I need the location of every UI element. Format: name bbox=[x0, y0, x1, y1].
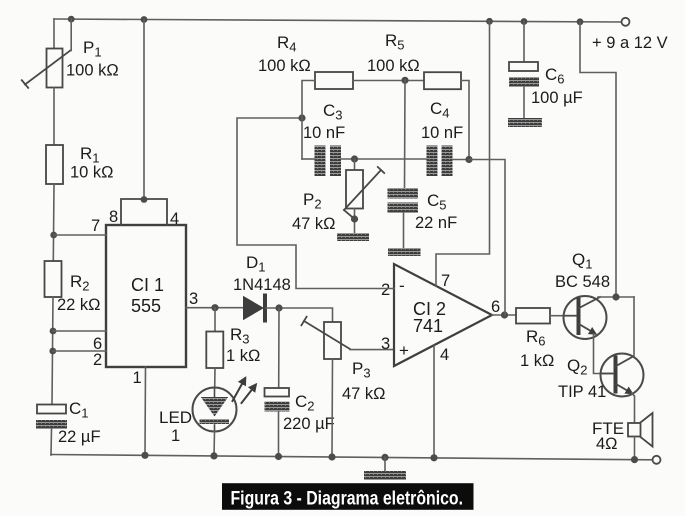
wire Q1 emitter to Q2 base bbox=[594, 334, 613, 374]
wire R1 to R2 bbox=[52, 184, 55, 261]
wire 555 pins 8-4 to rail bbox=[143, 20, 145, 200]
svg-text:1 kΩ: 1 kΩ bbox=[520, 352, 554, 370]
junction pin 6 node bbox=[501, 311, 508, 318]
svg-text:100 kΩ: 100 kΩ bbox=[367, 57, 420, 75]
wire C6 to ground bbox=[523, 87, 525, 118]
svg-text:100 µF: 100 µF bbox=[531, 89, 583, 107]
trimpot P3 bbox=[301, 317, 350, 359]
junction node R4-R5-C5 bbox=[401, 77, 408, 84]
svg-text:D1: D1 bbox=[246, 253, 266, 275]
svg-text:22 µF: 22 µF bbox=[58, 428, 101, 446]
svg-text:TIP 41: TIP 41 bbox=[558, 383, 606, 401]
wire pin 6 bbox=[53, 330, 106, 332]
wire Q2 emitter to speaker bbox=[632, 393, 635, 423]
wire to Q2 collector bbox=[633, 297, 635, 356]
wire pin 7 bbox=[54, 234, 106, 236]
svg-text:1: 1 bbox=[171, 427, 180, 445]
wire pin 6 output bbox=[492, 314, 516, 316]
ground symbol main bbox=[364, 471, 406, 480]
wire R4 left lead bbox=[302, 81, 315, 160]
junction C4-R5-feedback bbox=[465, 156, 472, 163]
svg-text:Figura 3 - Diagrama eletrônic: Figura 3 - Diagrama eletrônico. bbox=[231, 487, 464, 509]
svg-text:CI 1: CI 1 bbox=[131, 275, 164, 295]
svg-text:R4: R4 bbox=[277, 33, 297, 55]
junction pin6 tap bbox=[50, 328, 57, 335]
svg-text:4Ω: 4Ω bbox=[596, 435, 618, 453]
resistor R6 bbox=[516, 308, 550, 324]
wire speaker to ground rail bbox=[634, 437, 636, 460]
svg-text:10 kΩ: 10 kΩ bbox=[70, 164, 114, 182]
svg-text:C4: C4 bbox=[430, 99, 450, 121]
svg-text:Q1: Q1 bbox=[572, 250, 592, 272]
wire P3 bottom to ground rail bbox=[331, 359, 334, 457]
transistor Q1 bbox=[564, 296, 607, 339]
supply + terminal bbox=[622, 18, 630, 26]
junction rail / speaker bbox=[631, 456, 638, 463]
svg-text:1: 1 bbox=[133, 369, 142, 387]
op-amp CI2 741 bbox=[394, 264, 492, 366]
svg-text:+: + bbox=[399, 341, 409, 360]
wire R3 to LED bbox=[214, 368, 216, 388]
wire P1 top lead bbox=[53, 19, 55, 49]
junction C3-C4 / P2 bbox=[351, 155, 358, 162]
ground under C6 bbox=[508, 118, 542, 127]
svg-text:1N4148: 1N4148 bbox=[233, 276, 291, 294]
wire R5 right lead bbox=[461, 81, 469, 160]
capacitor C5 bbox=[388, 188, 419, 213]
IC CI1 555 bbox=[106, 199, 186, 367]
svg-text:LED: LED bbox=[159, 408, 192, 427]
wire pin 1 to ground rail bbox=[144, 367, 147, 455]
wire P2 top lead bbox=[354, 159, 356, 170]
junction pin7 tap bbox=[50, 232, 57, 239]
supply - terminal bbox=[653, 456, 661, 464]
wire bottom ground rail bbox=[51, 455, 653, 460]
wire R3 top lead bbox=[214, 308, 216, 332]
wire into C3 bbox=[302, 158, 315, 160]
svg-text:4: 4 bbox=[440, 346, 449, 364]
resistor R5 bbox=[424, 72, 461, 89]
svg-text:100 kΩ: 100 kΩ bbox=[258, 57, 311, 75]
junction pin2 tap bbox=[49, 348, 56, 355]
junction rail / pin4 bbox=[430, 454, 437, 461]
junction pin3 / R3 bbox=[211, 304, 218, 311]
wire R6 to Q1 base bbox=[550, 315, 564, 317]
ground under C5 bbox=[388, 248, 421, 256]
svg-text:10 nF: 10 nF bbox=[303, 124, 345, 142]
svg-text:BC 548: BC 548 bbox=[555, 273, 610, 291]
LED 1 bbox=[193, 379, 256, 432]
svg-text:2: 2 bbox=[93, 351, 102, 369]
resistor R4 bbox=[315, 72, 353, 89]
svg-text:7: 7 bbox=[91, 217, 100, 235]
junction rail / P3 bbox=[328, 453, 335, 460]
trimpot P2 bbox=[344, 167, 384, 219]
wire pin 2 bbox=[53, 350, 106, 352]
svg-text:4: 4 bbox=[170, 210, 179, 228]
junction filter input node bbox=[298, 114, 305, 121]
wire P3 wiper to pin 3 bbox=[350, 349, 394, 351]
wire LED to ground rail bbox=[213, 432, 216, 457]
svg-text:R1: R1 bbox=[80, 144, 100, 166]
svg-text:47 kΩ: 47 kΩ bbox=[342, 385, 386, 403]
svg-text:22 nF: 22 nF bbox=[415, 214, 457, 232]
wire D1 cathode to P3 top bbox=[266, 308, 333, 322]
wire node B to C5 bbox=[404, 80, 407, 188]
svg-text:C2: C2 bbox=[295, 392, 315, 414]
svg-text:7: 7 bbox=[441, 272, 450, 290]
transistor Q2 bbox=[601, 354, 644, 397]
svg-text:47 kΩ: 47 kΩ bbox=[292, 215, 336, 233]
capacitor C2 bbox=[265, 388, 290, 412]
wire C2 to ground rail bbox=[278, 412, 280, 457]
junction rail / C2 bbox=[275, 453, 282, 460]
wire collector node bbox=[598, 296, 634, 298]
wire C3 to C4 bbox=[341, 158, 427, 160]
junction rail / ground stem bbox=[381, 454, 388, 461]
wire ground stem bbox=[384, 457, 386, 471]
resistor R2 bbox=[45, 261, 62, 297]
capacitor C1 bbox=[36, 405, 67, 430]
svg-text:C5: C5 bbox=[427, 191, 447, 213]
speaker FTE bbox=[628, 413, 653, 447]
svg-text:8: 8 bbox=[109, 208, 118, 226]
wire C4 right lead bbox=[453, 159, 470, 161]
junction tab top bbox=[141, 196, 148, 203]
svg-text:555: 555 bbox=[131, 296, 161, 316]
wire P1 wiper to rail bbox=[70, 19, 72, 50]
svg-text:C6: C6 bbox=[545, 65, 565, 87]
capacitor C4 bbox=[427, 146, 453, 177]
wire C6 top lead bbox=[523, 22, 525, 63]
svg-text:+ 9 a 12 V: + 9 a 12 V bbox=[592, 34, 668, 52]
junction top rail / C6 bbox=[521, 18, 528, 25]
svg-text:P3: P3 bbox=[352, 359, 371, 381]
wire pin 4 to ground rail bbox=[433, 346, 435, 458]
wire R2 to C1 bbox=[52, 297, 53, 405]
junction top rail / 555 pins 8-4 bbox=[141, 16, 148, 23]
junction top rail / Q1-Q2 collector feed bbox=[577, 18, 584, 25]
junction rail / pin1 bbox=[141, 452, 148, 459]
junction top rail / P1 wiper bbox=[68, 16, 75, 23]
svg-text:3: 3 bbox=[381, 335, 390, 353]
junction P2 wiper bbox=[351, 215, 358, 222]
svg-text:C1: C1 bbox=[69, 399, 89, 421]
svg-text:R2: R2 bbox=[70, 272, 90, 294]
svg-text:10 nF: 10 nF bbox=[421, 124, 463, 142]
resistor R3 bbox=[206, 332, 223, 369]
wire supply feed to collectors bbox=[580, 22, 616, 297]
svg-text:R5: R5 bbox=[385, 31, 405, 53]
ground under P2 bbox=[337, 233, 369, 241]
svg-text:2: 2 bbox=[381, 281, 390, 299]
svg-text:P2: P2 bbox=[303, 190, 322, 212]
junction collector node bbox=[612, 293, 619, 300]
svg-text:-: - bbox=[399, 276, 405, 295]
junction rail / LED bbox=[210, 452, 217, 459]
svg-text:3: 3 bbox=[189, 290, 198, 308]
svg-text:R6: R6 bbox=[526, 327, 546, 349]
wire R4-R5 junction bbox=[353, 80, 424, 82]
svg-text:22 kΩ: 22 kΩ bbox=[57, 296, 101, 314]
junction D1 / C2 node bbox=[275, 304, 282, 311]
wire feedback pin6 to C4 node bbox=[469, 160, 505, 316]
junction top rail / op-amp pin 7 feed bbox=[486, 18, 493, 25]
svg-text:741: 741 bbox=[413, 316, 443, 336]
wire top supply rail bbox=[54, 19, 622, 22]
caption bar bbox=[222, 483, 474, 510]
wire pin 2 net to filter input bbox=[237, 118, 394, 289]
wire P2 bottom lead bbox=[354, 209, 356, 234]
svg-text:100 kΩ: 100 kΩ bbox=[66, 62, 119, 80]
wire C2 top lead bbox=[278, 308, 280, 388]
wire pin 7 to supply rail bbox=[436, 21, 490, 286]
svg-text:P1: P1 bbox=[83, 38, 102, 60]
svg-text:C3: C3 bbox=[323, 101, 343, 123]
potentiometer P1 bbox=[22, 49, 71, 88]
svg-text:6: 6 bbox=[491, 298, 500, 316]
wire C1 to ground rail bbox=[50, 429, 53, 455]
svg-text:Q2: Q2 bbox=[567, 356, 587, 378]
svg-text:R3: R3 bbox=[230, 325, 250, 347]
svg-text:1 kΩ: 1 kΩ bbox=[226, 347, 260, 365]
wire P1 to R1 bbox=[53, 88, 55, 146]
capacitor C6 bbox=[509, 62, 539, 87]
wire C5 to ground bbox=[403, 213, 405, 248]
resistor R1 bbox=[46, 145, 63, 184]
capacitor C3 bbox=[315, 146, 342, 177]
diode D1 bbox=[243, 296, 265, 321]
wire pin 3 to D1 bbox=[186, 307, 243, 309]
svg-text:220 µF: 220 µF bbox=[283, 415, 335, 433]
